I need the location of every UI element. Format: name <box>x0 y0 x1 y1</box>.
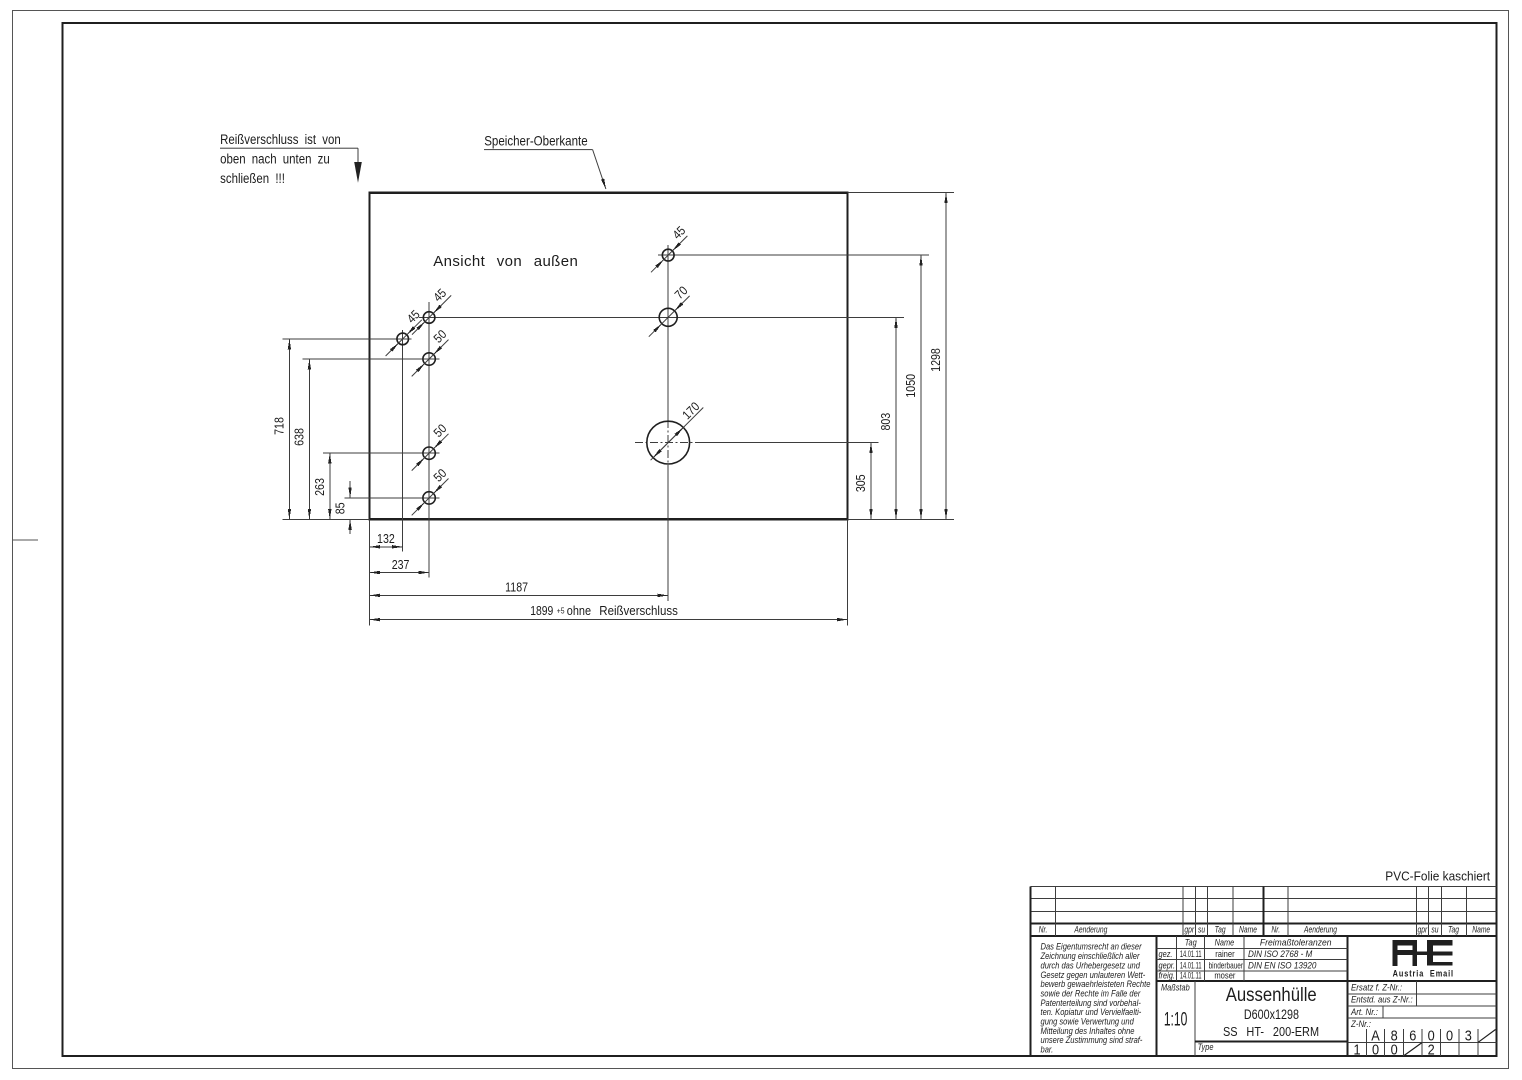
extension line 263 level <box>323 453 440 454</box>
vertical extension x=132 holes <box>402 330 403 552</box>
svg-text:263: 263 <box>313 478 327 496</box>
hole C6 d45 <box>651 223 689 272</box>
vertical extension below rect right <box>847 519 848 625</box>
svg-text:6: 6 <box>1409 1028 1416 1044</box>
svg-text:2: 2 <box>1428 1042 1435 1058</box>
copyright paragraph <box>1040 941 1151 1055</box>
dim 305 <box>854 443 871 520</box>
dim 132 <box>370 532 403 547</box>
svg-text:gepr.: gepr. <box>1159 961 1176 971</box>
revision table header texts <box>1039 925 1491 935</box>
svg-text:Speicher-Oberkante: Speicher-Oberkante <box>484 133 587 148</box>
svg-text:Aenderung: Aenderung <box>1303 925 1337 935</box>
hole C8 d170 <box>647 399 704 464</box>
svg-text:305: 305 <box>854 474 868 492</box>
svg-text:Nr.: Nr. <box>1271 925 1280 935</box>
svg-text:638: 638 <box>293 428 307 446</box>
svg-text:14.01.11: 14.01.11 <box>1180 960 1202 971</box>
svg-text:gpr: gpr <box>1184 925 1194 935</box>
vertical extension below rect left <box>369 519 370 625</box>
drawing number digits <box>1353 1028 1471 1058</box>
svg-text:1899: 1899 <box>530 605 553 618</box>
svg-text:Ansicht von außen: Ansicht von außen <box>433 253 578 270</box>
svg-text:Ersatz f. Z-Nr.:: Ersatz f. Z-Nr.: <box>1351 982 1403 993</box>
svg-text:14.01.11: 14.01.11 <box>1180 970 1202 981</box>
extension line 85 level <box>344 497 439 498</box>
svg-text:Aenderung: Aenderung <box>1074 925 1108 935</box>
gez/gepr/freig table texts <box>1159 937 1332 981</box>
svg-text:3: 3 <box>1465 1028 1472 1044</box>
dim 1298 <box>929 193 946 520</box>
hole C5 d50 <box>412 466 450 515</box>
svg-text:freig.: freig. <box>1159 971 1175 981</box>
dim 718 <box>273 339 290 519</box>
svg-text:1187: 1187 <box>505 581 528 595</box>
svg-text:Maßstab: Maßstab <box>1161 983 1190 993</box>
svg-text:Tag: Tag <box>1185 938 1197 948</box>
svg-text:Entstd. aus Z-Nr.:: Entstd. aus Z-Nr.: <box>1351 994 1413 1005</box>
svg-text:Tag: Tag <box>1448 925 1459 935</box>
svg-text:Art. Nr.:: Art. Nr.: <box>1350 1006 1378 1017</box>
svg-text:1:10: 1:10 <box>1164 1009 1188 1031</box>
hole C2 d45 <box>412 286 451 335</box>
left centering mark <box>13 540 38 541</box>
svg-text:schließen !!!: schließen !!! <box>220 171 285 186</box>
svg-text:14.01.11: 14.01.11 <box>1180 949 1202 960</box>
logo Austria Email <box>1393 940 1454 978</box>
svg-text:1050: 1050 <box>904 374 918 398</box>
svg-text:Austria Email: Austria Email <box>1393 968 1454 979</box>
svg-text:Type: Type <box>1198 1042 1214 1052</box>
hole C7 d70 <box>649 283 691 336</box>
svg-text:SS HT- 200-ERM: SS HT- 200-ERM <box>1223 1024 1319 1039</box>
svg-text:237: 237 <box>392 558 410 572</box>
svg-text:85: 85 <box>334 502 348 514</box>
svg-text:Z-Nr.:: Z-Nr.: <box>1350 1018 1371 1029</box>
svg-text:gpr: gpr <box>1418 925 1428 935</box>
extension line 718 level <box>282 338 411 339</box>
dim 237 <box>370 558 430 572</box>
Z-Nr diagonal row2 <box>1404 1043 1422 1056</box>
svg-text:Name: Name <box>1239 925 1257 935</box>
dim 638 <box>293 359 310 519</box>
svg-text:Name: Name <box>1215 938 1235 948</box>
extension line 1050 level <box>658 255 929 256</box>
svg-text:PVC-Folie kaschiert: PVC-Folie kaschiert <box>1385 869 1490 884</box>
extension line 638 level <box>303 359 440 360</box>
svg-text:1: 1 <box>1353 1042 1360 1058</box>
hole C4 d50 <box>412 421 450 470</box>
svg-text:su: su <box>1198 925 1206 935</box>
right section labels <box>1350 982 1413 1029</box>
svg-text:DIN ISO 2768 - M: DIN ISO 2768 - M <box>1248 949 1313 960</box>
svg-text:gez.: gez. <box>1159 949 1173 959</box>
note: Speicher-Oberkante leader <box>484 133 606 189</box>
dim 803 <box>879 317 896 519</box>
svg-text:oben nach unten zu: oben nach unten zu <box>220 152 330 167</box>
dim 263 <box>313 453 330 519</box>
dim 85 (arrows outside) <box>334 481 351 534</box>
svg-text:Reißverschluss ist von: Reißverschluss ist von <box>220 132 341 147</box>
svg-text:Tag: Tag <box>1215 925 1226 935</box>
panel outline (Aussenhuelle) <box>370 193 848 520</box>
svg-text:bar.: bar. <box>1041 1044 1054 1055</box>
vertical extension x=1187 holes <box>668 245 669 601</box>
svg-text:Aussenhülle: Aussenhülle <box>1226 984 1317 1005</box>
extension line 305 level / C8 horizontal centerline <box>635 442 879 443</box>
note: Reissverschluss leader <box>220 132 362 186</box>
dim 1050 <box>904 255 921 519</box>
svg-text:Reißverschluss: Reißverschluss <box>599 603 678 618</box>
top edge extension right <box>848 192 954 193</box>
dim 1899 +5 ohne Reissverschluss <box>370 603 848 619</box>
vertical extension x=237 holes <box>429 302 430 578</box>
PVC-Folie kaschiert <box>1385 869 1490 884</box>
svg-text:rainer: rainer <box>1215 948 1235 959</box>
title texts <box>1223 984 1319 1039</box>
svg-text:+5: +5 <box>557 606 565 616</box>
svg-text:0: 0 <box>1446 1028 1453 1044</box>
hole C3 d50 <box>412 327 450 376</box>
svg-text:DIN EN ISO 13920: DIN EN ISO 13920 <box>1248 960 1317 971</box>
svg-text:su: su <box>1431 925 1439 935</box>
bottom edge extension left <box>282 519 369 520</box>
svg-text:unsere Zustimmung sind straf-: unsere Zustimmung sind straf- <box>1041 1035 1143 1046</box>
svg-text:1298: 1298 <box>929 348 943 372</box>
svg-text:Freimaßtoleranzen: Freimaßtoleranzen <box>1260 937 1332 948</box>
svg-text:D600x1298: D600x1298 <box>1244 1007 1299 1023</box>
svg-text:132: 132 <box>377 532 395 546</box>
svg-text:0: 0 <box>1391 1042 1398 1058</box>
extension line 803 level <box>419 317 904 318</box>
title block frame <box>1155 936 1496 1056</box>
bottom edge extension right <box>848 519 954 520</box>
revision table <box>1029 886 1496 1056</box>
label: Ansicht von aussen <box>433 253 578 270</box>
svg-text:ohne: ohne <box>567 604 591 618</box>
svg-text:Name: Name <box>1472 925 1490 935</box>
Massstab cell <box>1161 983 1190 1030</box>
Z-Nr diagonal row1 <box>1478 1030 1495 1043</box>
Type row <box>1198 1042 1214 1052</box>
hole C1 d45 <box>386 307 424 356</box>
svg-text:718: 718 <box>273 417 287 435</box>
svg-text:803: 803 <box>879 413 893 431</box>
dim 1187 <box>370 581 669 596</box>
svg-text:Nr.: Nr. <box>1039 925 1048 935</box>
svg-text:0: 0 <box>1372 1042 1379 1058</box>
svg-text:moser: moser <box>1214 970 1235 981</box>
